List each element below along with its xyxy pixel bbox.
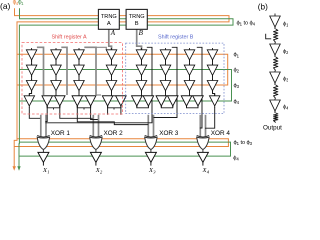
svg-text:XOR 1: XOR 1 [51,130,71,137]
svg-text:(a): (a) [0,1,11,11]
svg-text:1: 1 [286,23,288,28]
svg-text:Shift register B: Shift register B [158,34,194,40]
svg-text:to: to [241,140,246,146]
svg-text:2: 2 [286,50,288,55]
svg-text:B: B [139,29,144,37]
svg-text:XOR 2: XOR 2 [104,130,124,137]
svg-text:B: B [135,21,139,27]
svg-text:(b): (b) [258,2,268,11]
svg-text:Shift register A: Shift register A [52,34,87,40]
svg-text:TRNG: TRNG [101,14,117,20]
svg-text:1: 1 [47,170,49,175]
svg-text:A: A [107,21,111,27]
svg-text:XOR 3: XOR 3 [159,130,179,137]
svg-text:4: 4 [286,106,288,111]
svg-text:Output: Output [263,125,282,132]
svg-text:TRNG: TRNG [129,14,145,20]
svg-text:3: 3 [286,78,288,83]
svg-text:A: A [110,29,116,37]
svg-text:XOR 4: XOR 4 [211,130,231,137]
svg-text:to: to [244,20,249,26]
